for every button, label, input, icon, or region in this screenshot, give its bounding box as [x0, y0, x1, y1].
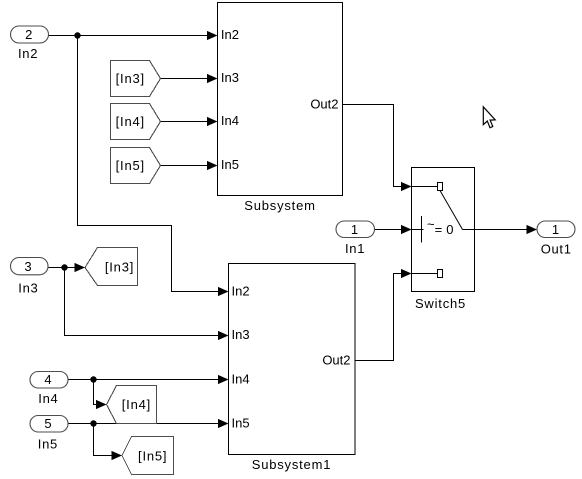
svg-text:[In5]: [In5] [116, 158, 145, 173]
svg-text:Subsystem1: Subsystem1 [252, 457, 332, 472]
svg-text:In3: In3 [232, 327, 250, 342]
svg-text:5: 5 [44, 416, 51, 431]
svg-text:In3: In3 [221, 70, 239, 85]
svg-text:Out2: Out2 [310, 96, 338, 111]
svg-text:In4: In4 [38, 391, 58, 406]
svg-text:[In3]: [In3] [105, 259, 134, 274]
svg-text:In5: In5 [221, 157, 239, 172]
svg-text:Out2: Out2 [322, 353, 350, 368]
svg-text:3: 3 [24, 259, 31, 274]
svg-text:Subsystem: Subsystem [244, 198, 316, 213]
svg-text:2: 2 [25, 27, 32, 42]
svg-text:[In4]: [In4] [116, 114, 145, 129]
svg-text:In2: In2 [221, 27, 239, 42]
svg-text:4: 4 [44, 372, 51, 387]
svg-text:In3: In3 [18, 280, 38, 295]
svg-text:[In3]: [In3] [116, 71, 145, 86]
svg-text:[In4]: [In4] [122, 397, 151, 412]
svg-text:In2: In2 [18, 46, 38, 61]
svg-text:1: 1 [552, 222, 559, 237]
svg-text:In4: In4 [221, 113, 239, 128]
svg-text:In5: In5 [232, 415, 250, 430]
svg-text:[In5]: [In5] [138, 449, 167, 464]
svg-text:Switch5: Switch5 [415, 296, 466, 311]
svg-text:In4: In4 [232, 371, 250, 386]
svg-text:1: 1 [351, 222, 358, 237]
svg-text:In2: In2 [232, 284, 250, 299]
svg-text:Out1: Out1 [541, 241, 572, 256]
svg-text:In1: In1 [345, 241, 365, 256]
svg-text:In5: In5 [38, 437, 58, 452]
